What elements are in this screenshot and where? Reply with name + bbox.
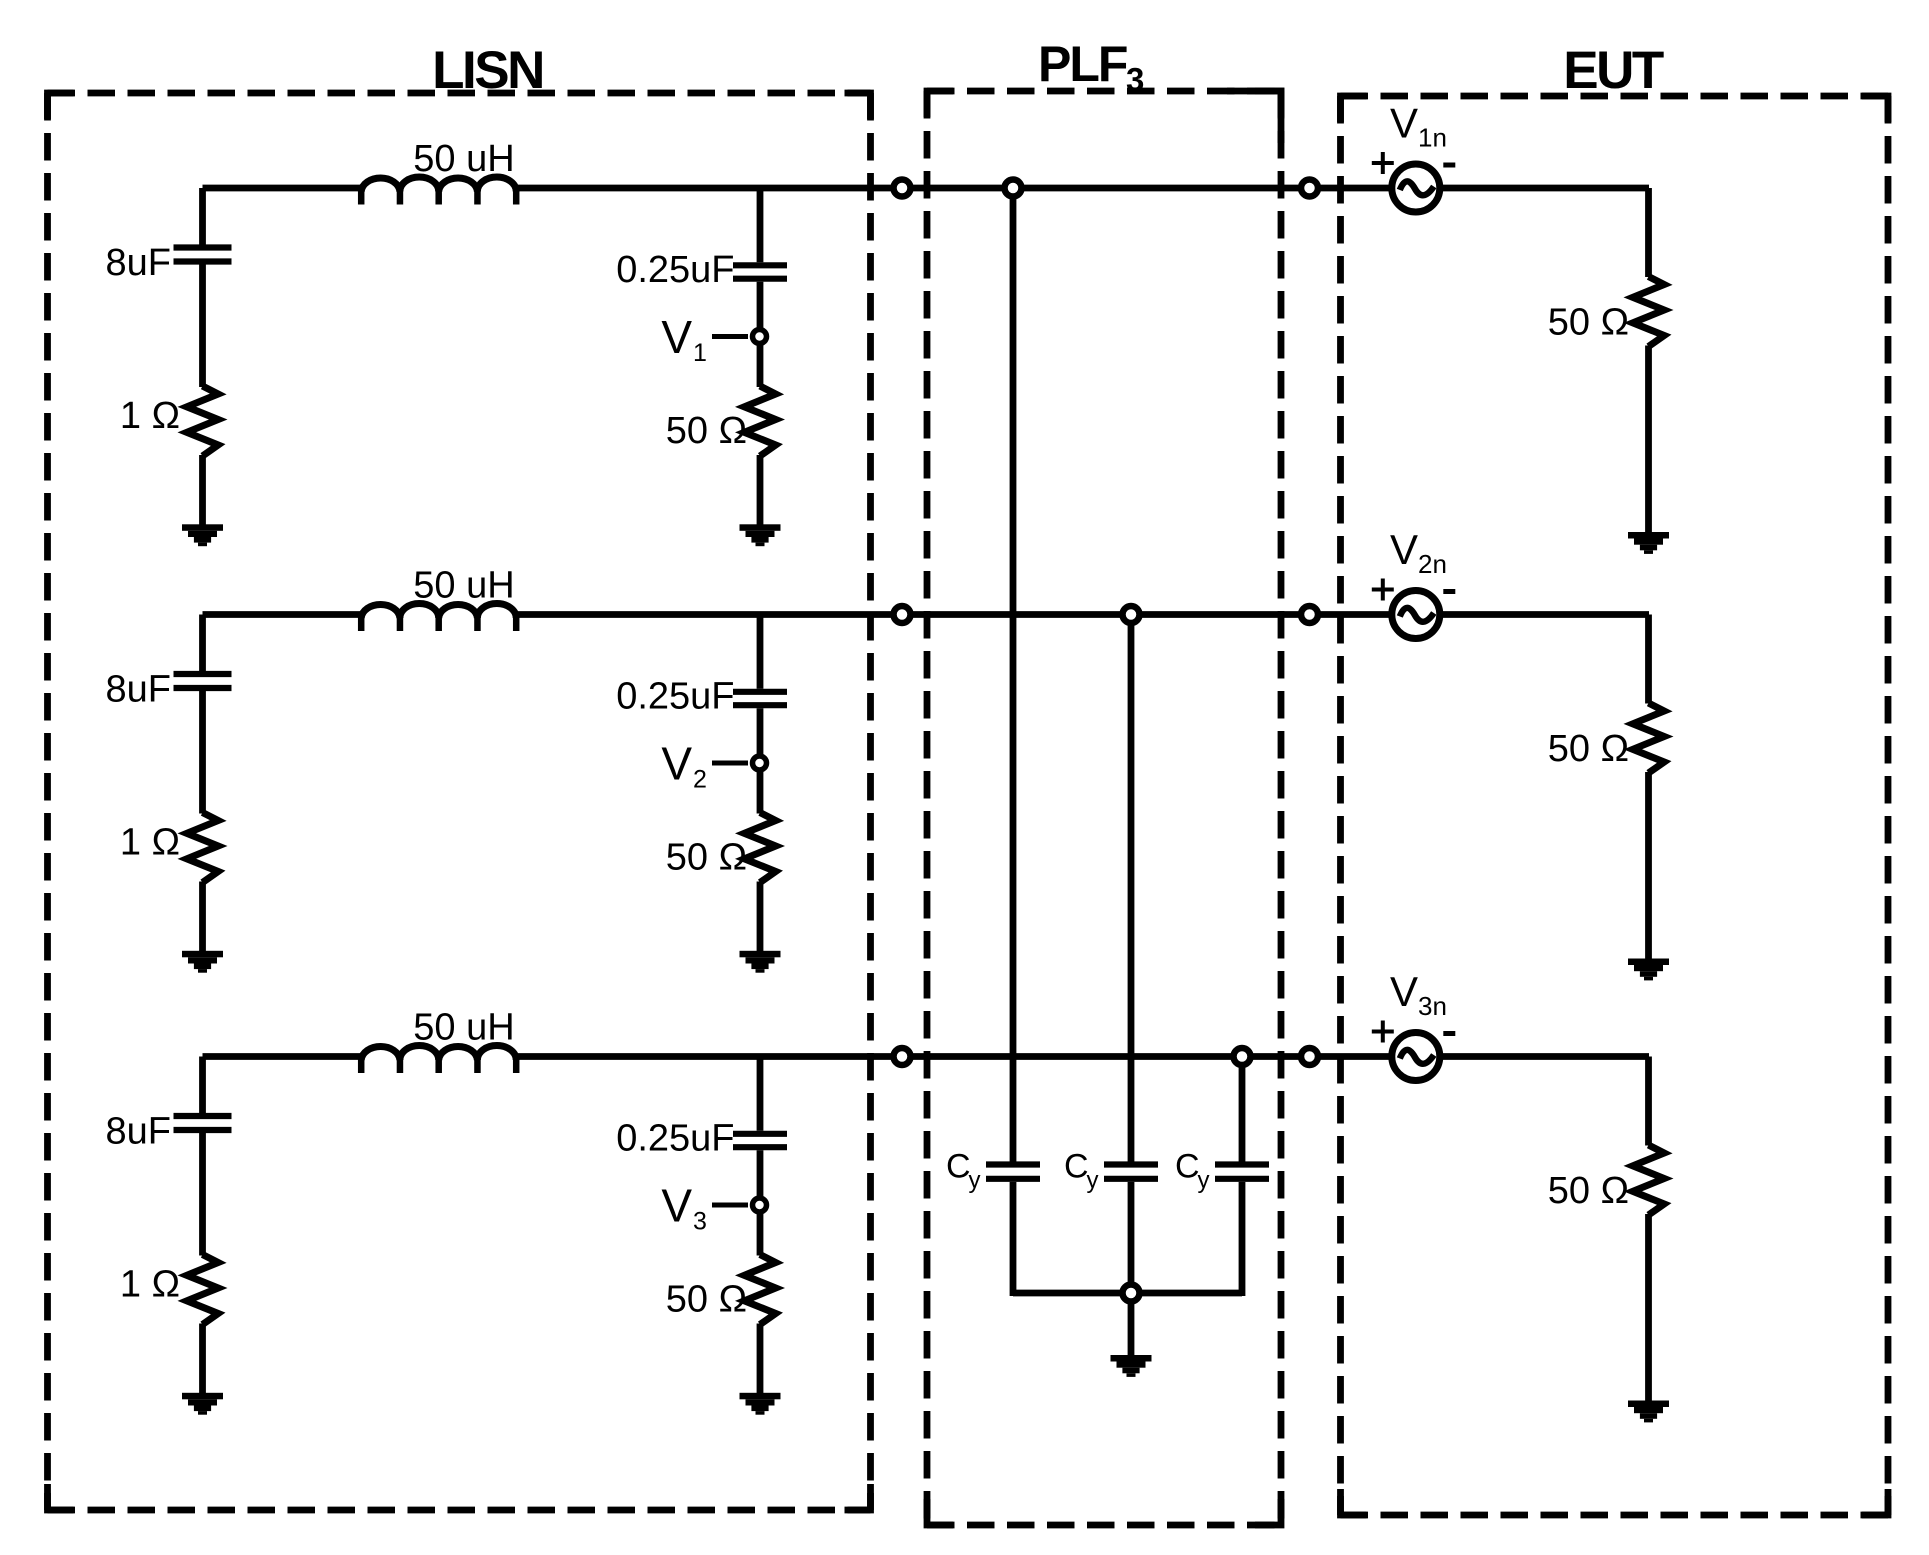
svg-text:1: 1 [693, 339, 707, 367]
svg-text:50 Ω: 50 Ω [666, 410, 747, 452]
svg-text:3n: 3n [1418, 991, 1447, 1021]
svg-text:50 uH: 50 uH [413, 565, 514, 607]
svg-text:1 Ω: 1 Ω [120, 1264, 180, 1306]
svg-text:V: V [1390, 526, 1418, 573]
svg-text:V: V [661, 311, 692, 363]
svg-text:V: V [1390, 968, 1418, 1015]
svg-text:V: V [1390, 100, 1418, 147]
svg-text:50 Ω: 50 Ω [1548, 728, 1629, 770]
svg-text:y: y [1198, 1167, 1210, 1194]
svg-text:1n: 1n [1418, 123, 1447, 153]
svg-text:50 Ω: 50 Ω [666, 1279, 747, 1321]
svg-text:3: 3 [693, 1208, 707, 1236]
svg-text:C: C [1175, 1148, 1200, 1186]
svg-text:PLF: PLF [1038, 36, 1127, 92]
svg-text:0.25uF: 0.25uF [616, 1118, 734, 1160]
svg-text:50 Ω: 50 Ω [666, 837, 747, 879]
svg-text:8uF: 8uF [106, 242, 171, 284]
svg-text:50 uH: 50 uH [413, 1007, 514, 1049]
svg-text:8uF: 8uF [106, 669, 171, 711]
svg-text:50 uH: 50 uH [413, 138, 514, 180]
svg-text:y: y [1087, 1167, 1099, 1194]
svg-text:2: 2 [693, 766, 707, 794]
svg-text:C: C [946, 1148, 971, 1186]
svg-text:3: 3 [1126, 61, 1144, 98]
svg-text:50 Ω: 50 Ω [1548, 1170, 1629, 1212]
svg-text:0.25uF: 0.25uF [616, 676, 734, 718]
svg-text:V: V [661, 738, 692, 790]
svg-text:LISN: LISN [432, 41, 543, 100]
svg-text:8uF: 8uF [106, 1111, 171, 1153]
svg-text:0.25uF: 0.25uF [616, 249, 734, 291]
svg-text:V: V [661, 1180, 692, 1232]
svg-text:1 Ω: 1 Ω [120, 395, 180, 437]
svg-text:1 Ω: 1 Ω [120, 822, 180, 864]
svg-text:2n: 2n [1418, 549, 1447, 579]
svg-text:C: C [1064, 1148, 1089, 1186]
svg-text:y: y [969, 1167, 981, 1194]
svg-text:EUT: EUT [1563, 41, 1664, 100]
svg-text:50 Ω: 50 Ω [1548, 302, 1629, 344]
